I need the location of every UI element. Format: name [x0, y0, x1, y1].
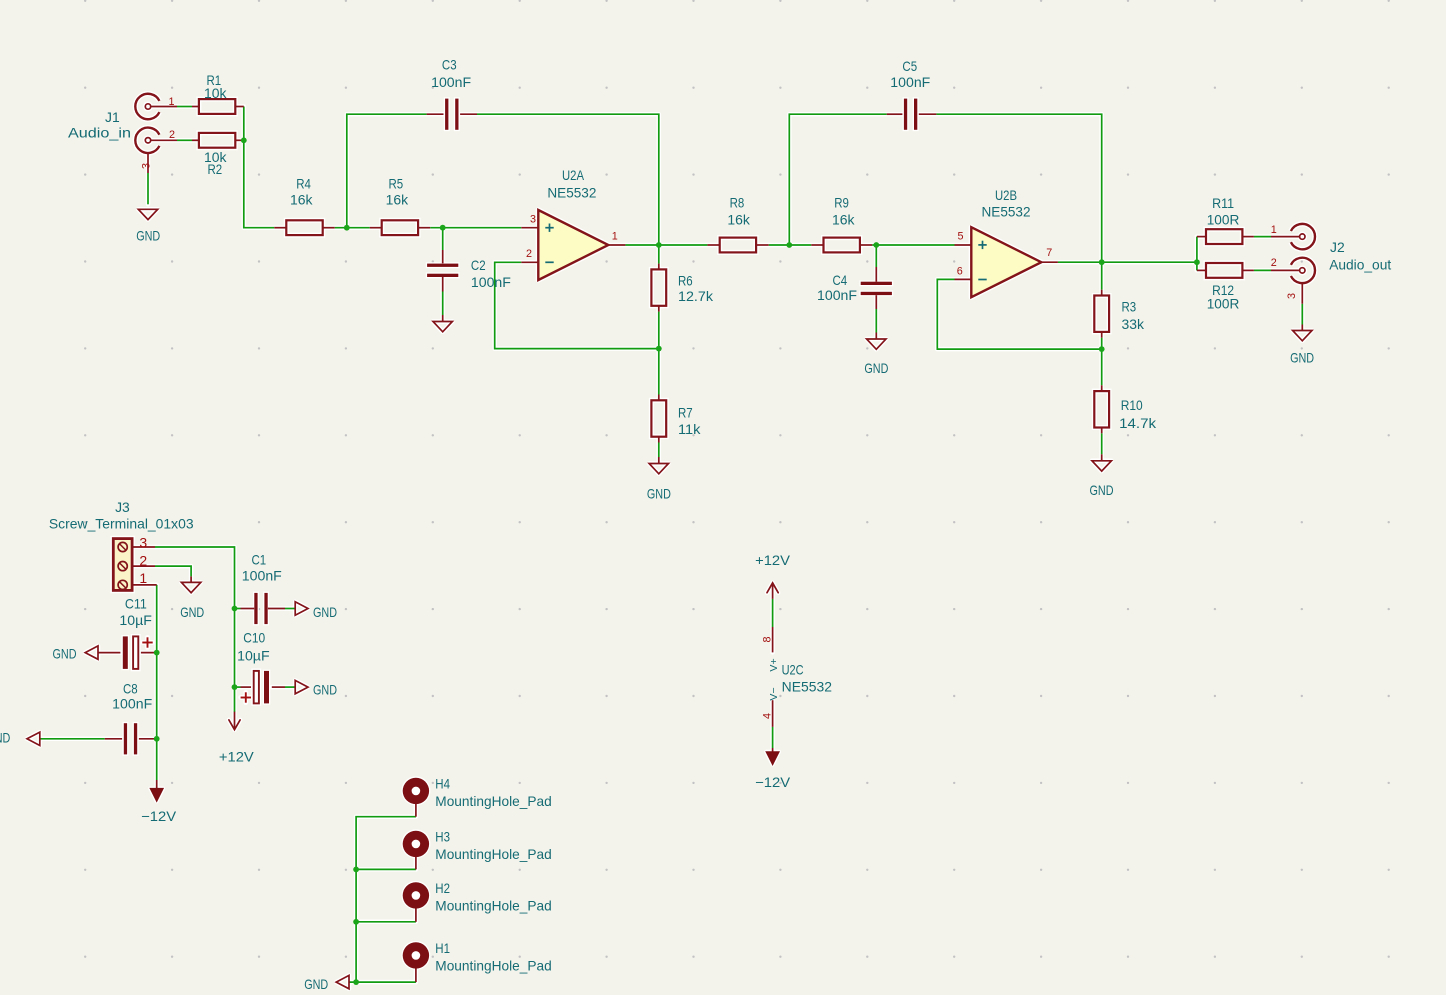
- svg-text:Screw_Terminal_01x03: Screw_Terminal_01x03: [49, 516, 194, 531]
- svg-text:2: 2: [1271, 257, 1277, 269]
- svg-text:C8: C8: [123, 682, 138, 697]
- svg-text:GND: GND: [1090, 483, 1114, 498]
- svg-text:GND: GND: [0, 731, 10, 746]
- svg-text:H2: H2: [435, 881, 450, 896]
- svg-text:11k: 11k: [678, 422, 701, 437]
- svg-text:R7: R7: [678, 406, 693, 421]
- svg-text:V−: V−: [768, 687, 780, 700]
- svg-text:+12V: +12V: [755, 553, 791, 568]
- svg-text:100R: 100R: [1207, 297, 1240, 312]
- svg-text:16k: 16k: [386, 193, 409, 208]
- svg-text:100nF: 100nF: [817, 288, 857, 303]
- svg-text:1: 1: [139, 570, 147, 586]
- svg-text:U2B: U2B: [995, 188, 1017, 203]
- svg-text:3: 3: [140, 163, 152, 169]
- svg-text:100R: 100R: [1207, 212, 1240, 227]
- svg-text:2: 2: [526, 248, 532, 260]
- svg-text:R10: R10: [1121, 398, 1143, 413]
- svg-text:NE5532: NE5532: [547, 185, 596, 200]
- svg-text:H3: H3: [435, 830, 450, 845]
- svg-text:8: 8: [762, 636, 774, 642]
- svg-text:Audio_out: Audio_out: [1329, 258, 1391, 273]
- svg-text:GND: GND: [53, 646, 77, 661]
- svg-text:H4: H4: [435, 777, 450, 792]
- svg-text:J1: J1: [105, 110, 120, 125]
- svg-text:R8: R8: [730, 196, 745, 211]
- svg-text:33k: 33k: [1122, 317, 1145, 332]
- svg-text:3: 3: [1286, 293, 1298, 299]
- svg-text:GND: GND: [180, 605, 204, 620]
- svg-text:MountingHole_Pad: MountingHole_Pad: [435, 899, 551, 914]
- svg-text:J2: J2: [1330, 240, 1345, 255]
- svg-text:16k: 16k: [727, 212, 750, 227]
- svg-text:C2: C2: [471, 258, 486, 273]
- svg-text:MountingHole_Pad: MountingHole_Pad: [435, 794, 551, 809]
- svg-text:2: 2: [169, 129, 175, 141]
- svg-text:U2A: U2A: [562, 168, 585, 183]
- svg-text:GND: GND: [313, 605, 337, 620]
- svg-text:2: 2: [139, 552, 147, 568]
- svg-text:R3: R3: [1122, 299, 1137, 314]
- svg-text:U2C: U2C: [782, 663, 804, 678]
- svg-text:MountingHole_Pad: MountingHole_Pad: [435, 959, 551, 974]
- svg-text:7: 7: [1046, 247, 1052, 259]
- svg-text:V+: V+: [768, 658, 780, 671]
- svg-text:C10: C10: [243, 630, 265, 645]
- svg-text:GND: GND: [1290, 351, 1314, 366]
- svg-text:NE5532: NE5532: [782, 680, 832, 695]
- svg-text:16k: 16k: [290, 193, 313, 208]
- svg-text:14.7k: 14.7k: [1119, 416, 1156, 431]
- svg-text:MountingHole_Pad: MountingHole_Pad: [435, 847, 551, 862]
- svg-text:3: 3: [530, 213, 536, 225]
- svg-text:R2: R2: [208, 162, 223, 177]
- svg-text:R9: R9: [834, 196, 849, 211]
- svg-text:C11: C11: [125, 597, 147, 612]
- svg-text:C5: C5: [902, 59, 917, 74]
- svg-text:100nF: 100nF: [890, 75, 930, 90]
- svg-text:GND: GND: [864, 361, 888, 376]
- svg-text:100nF: 100nF: [112, 697, 152, 712]
- svg-text:GND: GND: [136, 228, 160, 243]
- svg-text:10µF: 10µF: [119, 613, 151, 628]
- svg-text:4: 4: [762, 713, 774, 719]
- svg-text:1: 1: [612, 231, 618, 243]
- svg-text:R5: R5: [389, 177, 404, 192]
- svg-text:C1: C1: [252, 552, 267, 567]
- svg-text:100nF: 100nF: [431, 75, 471, 90]
- svg-text:R11: R11: [1212, 196, 1234, 211]
- svg-text:R4: R4: [296, 177, 311, 192]
- svg-text:NE5532: NE5532: [982, 204, 1031, 219]
- svg-text:+12V: +12V: [219, 750, 255, 765]
- svg-text:J3: J3: [115, 500, 130, 515]
- svg-text:GND: GND: [313, 683, 337, 698]
- svg-text:H1: H1: [435, 941, 450, 956]
- svg-text:−12V: −12V: [755, 775, 791, 790]
- svg-text:C3: C3: [442, 58, 457, 73]
- svg-text:100nF: 100nF: [242, 569, 282, 584]
- svg-text:1: 1: [168, 96, 174, 108]
- svg-text:1: 1: [1271, 224, 1277, 236]
- svg-text:GND: GND: [304, 977, 328, 992]
- svg-text:R6: R6: [678, 274, 693, 289]
- svg-text:5: 5: [957, 231, 963, 243]
- svg-text:GND: GND: [647, 487, 671, 502]
- svg-text:12.7k: 12.7k: [678, 289, 713, 304]
- svg-text:16k: 16k: [832, 212, 855, 227]
- svg-text:3: 3: [139, 535, 147, 551]
- svg-text:C4: C4: [833, 273, 848, 288]
- svg-text:6: 6: [957, 265, 963, 277]
- svg-text:−12V: −12V: [141, 809, 177, 824]
- svg-text:10k: 10k: [204, 86, 227, 101]
- svg-text:100nF: 100nF: [471, 275, 511, 290]
- svg-text:Audio_in: Audio_in: [68, 126, 131, 141]
- svg-text:10µF: 10µF: [237, 648, 270, 663]
